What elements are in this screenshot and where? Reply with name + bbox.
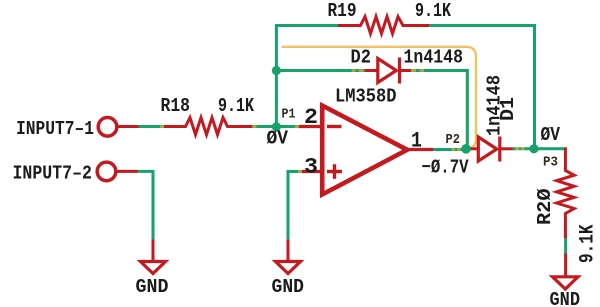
wire: red cathode lead: [400, 69, 412, 72]
wire: red drop into left GND: [152, 240, 155, 262]
svg-text:GND: GND: [550, 289, 581, 307]
wire: green D2 row right segment: [411, 69, 469, 72]
terminal INPUT7-2: [97, 162, 116, 181]
op-amp U1 LM358D: [298, 85, 434, 194]
terminal INPUT7-1: [98, 118, 117, 137]
svg-text:P3: P3: [543, 154, 558, 170]
wire: red stub from INPUT7-2 terminal: [116, 170, 140, 173]
wire: green node P3 to R20: [534, 147, 567, 150]
wire: red output pin1 lead: [407, 148, 433, 151]
svg-text:1n4148: 1n4148: [404, 47, 464, 69]
svg-text:9.1K: 9.1K: [577, 225, 600, 264]
svg-text:ØV: ØV: [541, 124, 561, 146]
svg-text:P1: P1: [282, 107, 296, 123]
ground symbol below R20: [553, 277, 579, 289]
svg-text:R18: R18: [161, 95, 191, 117]
wire: green corner from opamp pin3 down to GND: [288, 172, 303, 241]
svg-text:R2Ø: R2Ø: [534, 189, 556, 226]
resistor R19: [338, 17, 429, 34]
wire: green opamp output to node P2: [431, 148, 466, 151]
ground symbol below opamp pin3: [276, 262, 301, 274]
wire: green segment R18 to node P1 and opamp pin2: [251, 125, 300, 128]
svg-text:ØV: ØV: [267, 128, 289, 150]
op-amp minus input marker: [327, 125, 342, 128]
svg-text:R19: R19: [328, 0, 357, 22]
svg-text:D1: D1: [497, 97, 519, 121]
pin connection dashes at D2: [352, 69, 425, 72]
wire: green segment in R20 lower lead: [564, 237, 567, 255]
wire: red anode lead: [365, 69, 378, 72]
diode D1 cathode bar: [498, 137, 501, 162]
diode D1 1n4148: [466, 75, 519, 162]
diode D1 triangle: [478, 137, 497, 161]
resistor R20: [557, 148, 575, 239]
diode D2 cathode bar: [398, 58, 401, 84]
op-amp triangle body: [322, 106, 407, 195]
svg-text:INPUT7–2: INPUT7–2: [13, 162, 93, 184]
wire: red cathode lead: [500, 147, 513, 150]
svg-text:GND: GND: [136, 276, 169, 298]
wire: red pin2 lead: [298, 125, 324, 128]
wire: green segment INPUT7-1 to R18: [139, 125, 165, 128]
wire: green top feedback wire left of R19: [275, 24, 339, 27]
ground symbol below INPUT7-2: [141, 262, 166, 274]
wire: red stub from INPUT7-1 terminal: [117, 125, 141, 128]
node P2: [461, 144, 471, 154]
svg-text:−Ø.7V: −Ø.7V: [422, 157, 469, 179]
resistor R18: [163, 118, 252, 135]
svg-text:D2: D2: [351, 47, 372, 69]
wire: green vertical right side down to node P3: [533, 24, 536, 149]
svg-text:GND: GND: [272, 276, 305, 298]
diode D2 1n4148: [351, 47, 464, 84]
wire: green top feedback wire right of R19: [428, 24, 536, 27]
wire: green vertical from D2 row down to node P2: [466, 69, 469, 149]
svg-text:LM358D: LM358D: [335, 85, 397, 107]
pin connection dashes at D1 cathode: [516, 148, 525, 151]
wire: orange feedback wire from pin2 net to node P2: [282, 47, 477, 149]
svg-text:9.1K: 9.1K: [218, 95, 254, 117]
wire: red pin3 lead: [302, 170, 324, 173]
wire: green D1 cathode to node P3: [512, 147, 535, 150]
node P1: [272, 122, 281, 131]
node junction on D2 row: [272, 66, 281, 75]
wire: red anode lead from node P2: [466, 147, 479, 150]
op-amp plus input marker: [327, 170, 342, 173]
svg-text:3: 3: [304, 155, 318, 180]
svg-text:9.1K: 9.1K: [415, 0, 451, 22]
svg-text:INPUT7–1: INPUT7–1: [16, 118, 94, 140]
wire: green corner from INPUT7-2 down to GND: [138, 171, 154, 240]
wire: green vertical from node P1 up to top feedback wire: [275, 24, 278, 128]
wire: red lower lead of R20 to GND: [564, 254, 567, 276]
node P3: [529, 144, 538, 153]
svg-text:1: 1: [411, 129, 422, 154]
diode D2 triangle: [378, 59, 397, 83]
wire: red drop into middle GND: [287, 240, 290, 262]
pin connection dashes at node P2: [452, 148, 461, 151]
wire: green D2 row left segment: [276, 69, 366, 72]
svg-text:P2: P2: [446, 132, 461, 148]
pin connection dashes at opamp pin2 and pin3: [295, 127, 302, 172]
svg-text:2: 2: [304, 105, 318, 130]
pin connection dashes at R18: [160, 125, 257, 128]
